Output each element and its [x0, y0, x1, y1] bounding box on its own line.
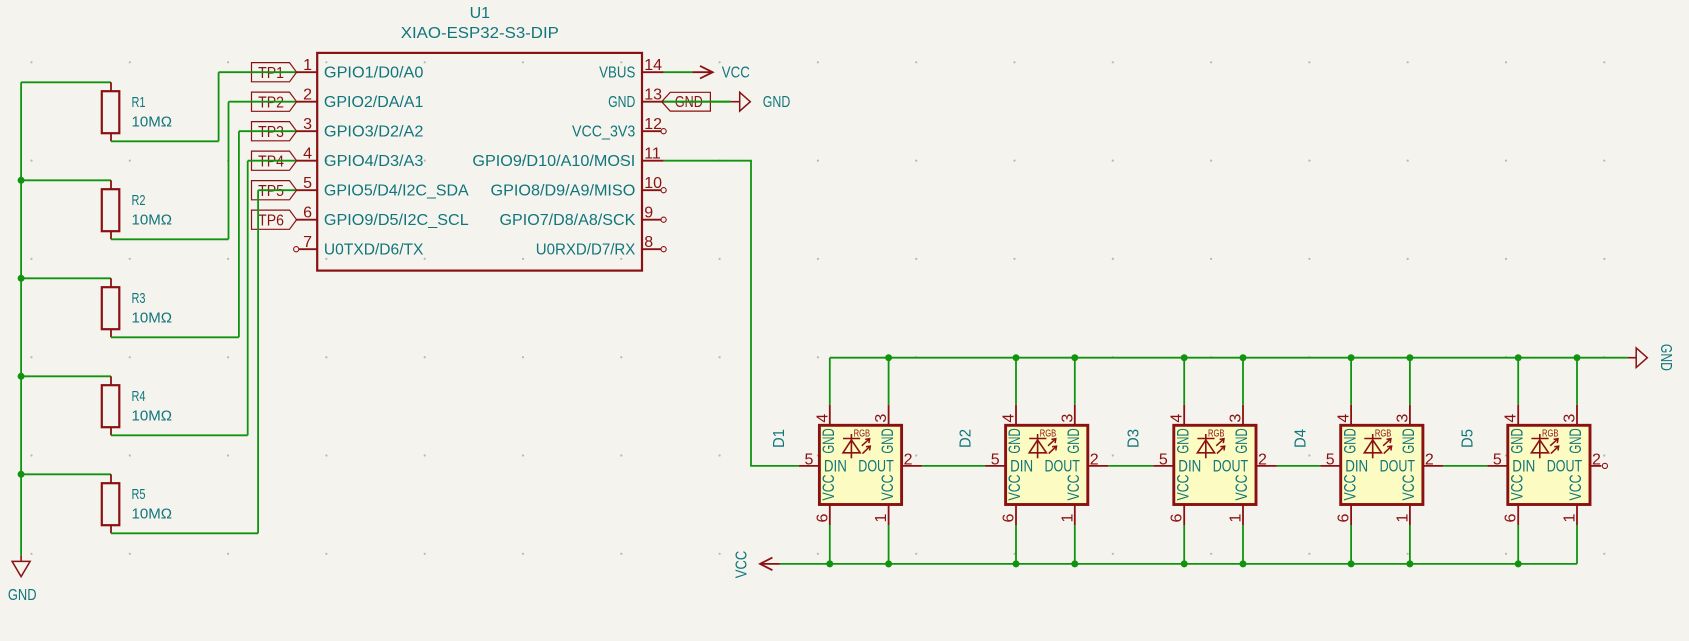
svg-text:DOUT: DOUT: [1045, 457, 1080, 475]
svg-text:6: 6: [1169, 514, 1186, 523]
svg-text:7: 7: [303, 234, 312, 251]
svg-text:VCC: VCC: [1174, 474, 1192, 500]
svg-text:DIN: DIN: [824, 457, 847, 475]
svg-text:GPIO5/D4/I2C_SDA: GPIO5/D4/I2C_SDA: [324, 183, 469, 200]
svg-text:GND: GND: [1400, 428, 1418, 453]
svg-text:GPIO2/DA/A1: GPIO2/DA/A1: [324, 94, 424, 111]
svg-text:5: 5: [991, 451, 1000, 468]
svg-text:TP1: TP1: [258, 65, 284, 82]
svg-text:1: 1: [303, 57, 312, 74]
svg-text:2: 2: [1425, 452, 1434, 469]
svg-text:TP2: TP2: [258, 94, 284, 111]
svg-text:U1: U1: [470, 5, 491, 22]
svg-text:VCC: VCC: [1065, 474, 1083, 500]
svg-text:6: 6: [1001, 514, 1018, 523]
svg-text:VCC: VCC: [1508, 474, 1526, 500]
svg-text:12: 12: [644, 116, 662, 133]
svg-text:10: 10: [644, 175, 662, 192]
svg-text:GPIO1/D0/A0: GPIO1/D0/A0: [324, 65, 424, 82]
svg-text:VCC: VCC: [820, 474, 838, 500]
svg-text:6: 6: [303, 205, 312, 222]
svg-text:D1: D1: [771, 429, 788, 448]
svg-text:DIN: DIN: [1512, 457, 1535, 475]
svg-text:3: 3: [1059, 414, 1076, 423]
svg-text:3: 3: [873, 414, 890, 423]
svg-text:R2: R2: [132, 193, 146, 209]
svg-text:TP6: TP6: [258, 212, 284, 229]
svg-text:D5: D5: [1460, 429, 1477, 448]
svg-text:R1: R1: [132, 95, 146, 111]
svg-text:10MΩ: 10MΩ: [132, 310, 173, 326]
svg-text:GND: GND: [608, 94, 635, 111]
svg-text:4: 4: [814, 414, 831, 423]
svg-text:2: 2: [1090, 452, 1099, 469]
svg-text:4: 4: [1336, 414, 1353, 423]
svg-text:GPIO7/D8/A8/SCK: GPIO7/D8/A8/SCK: [500, 212, 636, 229]
svg-text:GND: GND: [879, 428, 897, 453]
svg-text:1: 1: [1562, 514, 1579, 523]
svg-text:14: 14: [644, 57, 662, 74]
svg-text:6: 6: [814, 514, 831, 523]
svg-text:10MΩ: 10MΩ: [132, 408, 173, 424]
svg-text:GND: GND: [1233, 428, 1251, 453]
svg-text:VCC: VCC: [1233, 474, 1251, 500]
svg-text:U0RXD/D7/RX: U0RXD/D7/RX: [536, 242, 636, 259]
svg-text:GND: GND: [1174, 428, 1192, 453]
svg-text:4: 4: [1169, 414, 1186, 423]
svg-text:2: 2: [1258, 452, 1267, 469]
svg-text:6: 6: [1503, 514, 1520, 523]
svg-text:GPIO9/D10/A10/MOSI: GPIO9/D10/A10/MOSI: [472, 153, 635, 170]
svg-text:3: 3: [303, 116, 312, 133]
svg-text:1: 1: [873, 514, 890, 523]
svg-text:1: 1: [1059, 514, 1076, 523]
svg-text:5: 5: [1159, 451, 1168, 468]
svg-text:D2: D2: [957, 429, 974, 448]
svg-text:4: 4: [1001, 414, 1018, 423]
svg-text:GND: GND: [8, 587, 37, 604]
svg-text:10MΩ: 10MΩ: [132, 506, 173, 522]
svg-text:TP5: TP5: [258, 183, 284, 200]
svg-text:R5: R5: [132, 487, 146, 503]
svg-text:GND: GND: [1341, 428, 1359, 453]
svg-text:DOUT: DOUT: [1380, 457, 1415, 475]
svg-text:VCC: VCC: [1341, 474, 1359, 500]
svg-text:4: 4: [1503, 414, 1520, 423]
svg-text:U0TXD/D6/TX: U0TXD/D6/TX: [324, 242, 424, 259]
svg-text:2: 2: [1592, 452, 1601, 469]
svg-text:10MΩ: 10MΩ: [132, 114, 173, 130]
svg-text:8: 8: [644, 234, 653, 251]
svg-text:5: 5: [1326, 451, 1335, 468]
svg-text:10MΩ: 10MΩ: [132, 212, 173, 228]
svg-text:VCC_3V3: VCC_3V3: [572, 124, 635, 141]
svg-text:DOUT: DOUT: [1213, 457, 1248, 475]
svg-text:3: 3: [1228, 414, 1245, 423]
svg-text:TP4: TP4: [258, 153, 284, 170]
svg-text:VBUS: VBUS: [599, 65, 635, 82]
svg-text:VCC: VCC: [1006, 474, 1024, 500]
svg-text:9: 9: [644, 205, 653, 222]
svg-text:D3: D3: [1126, 429, 1143, 448]
svg-text:11: 11: [644, 146, 661, 163]
svg-text:DOUT: DOUT: [858, 457, 893, 475]
svg-text:R3: R3: [132, 291, 146, 307]
svg-text:GND: GND: [763, 94, 791, 111]
svg-text:VCC: VCC: [1567, 474, 1585, 500]
svg-text:3: 3: [1562, 414, 1579, 423]
svg-text:D4: D4: [1292, 429, 1309, 448]
svg-text:GND: GND: [1508, 428, 1526, 453]
svg-text:6: 6: [1336, 514, 1353, 523]
svg-text:13: 13: [644, 87, 662, 104]
svg-text:GND: GND: [1065, 428, 1083, 453]
svg-text:DIN: DIN: [1010, 457, 1033, 475]
svg-text:5: 5: [1493, 451, 1502, 468]
svg-text:DIN: DIN: [1345, 457, 1368, 475]
svg-text:3: 3: [1394, 414, 1411, 423]
svg-text:1: 1: [1394, 514, 1411, 523]
svg-text:VCC: VCC: [879, 474, 897, 500]
svg-text:1: 1: [1228, 514, 1245, 523]
svg-text:GND: GND: [1657, 344, 1674, 371]
svg-text:TP3: TP3: [258, 124, 284, 141]
svg-text:GPIO8/D9/A9/MISO: GPIO8/D9/A9/MISO: [491, 183, 636, 200]
svg-text:VCC: VCC: [733, 551, 750, 578]
svg-text:VCC: VCC: [1400, 474, 1418, 500]
svg-text:GPIO4/D3/A3: GPIO4/D3/A3: [324, 153, 424, 170]
svg-text:GND: GND: [1567, 428, 1585, 453]
svg-text:VCC: VCC: [722, 65, 750, 82]
svg-text:GND: GND: [1006, 428, 1024, 453]
svg-text:2: 2: [904, 452, 913, 469]
svg-text:R4: R4: [132, 389, 146, 405]
svg-text:DOUT: DOUT: [1547, 457, 1582, 475]
svg-text:GPIO9/D5/I2C_SCL: GPIO9/D5/I2C_SCL: [324, 212, 469, 229]
svg-text:5: 5: [804, 451, 813, 468]
svg-text:XIAO-ESP32-S3-DIP: XIAO-ESP32-S3-DIP: [401, 25, 559, 42]
svg-text:5: 5: [303, 175, 312, 192]
svg-text:GPIO3/D2/A2: GPIO3/D2/A2: [324, 124, 424, 141]
svg-text:GND: GND: [820, 428, 838, 453]
svg-text:DIN: DIN: [1178, 457, 1201, 475]
svg-text:2: 2: [303, 87, 312, 104]
svg-text:4: 4: [303, 146, 312, 163]
